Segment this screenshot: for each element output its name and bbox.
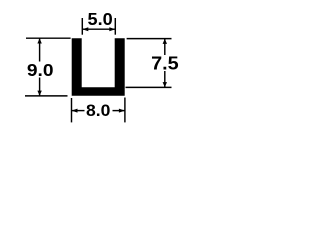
dimension 9.0 extension line top [26,37,71,39]
dimension 7.5 dimension line lower segment [164,71,166,87]
dimension 5.0 extension line left [81,18,83,35]
dimension 5.0 arrowhead right [109,27,115,31]
dimension 5.0 extension line right [114,18,116,35]
dimension 8.0 dimension line right segment [113,110,125,112]
svg-text:8.0: 8.0 [86,101,110,120]
dimension 7.5 extension line bottom [126,86,172,88]
dimension 7.5 dimension line upper segment [164,39,166,55]
dimension 9.0 arrowhead down [37,91,41,96]
dimension 5.0 dimension line [82,28,115,30]
dimension 8.0 arrowhead left [72,109,78,113]
dimension 9.0 extension line bottom [25,95,68,97]
dimension 7.5 arrowhead down [163,82,167,87]
dimension 5.0 arrowhead left [82,27,88,31]
svg-text:5.0: 5.0 [88,9,113,29]
dimension 7.5 extension line top [127,38,172,40]
dimension 9.0 arrowhead up [37,38,41,43]
svg-text:7.5: 7.5 [151,52,179,73]
dimension 9.0 dimension line upper segment [39,38,41,61]
dimension 8.0 arrowhead right [119,109,125,113]
U-channel profile cross-section [72,38,125,95]
dimension 9.0 dimension line lower segment [39,78,41,96]
svg-text:9.0: 9.0 [27,60,54,80]
dimension 8.0 extension line left [71,98,73,122]
dimension 8.0 extension line right [124,98,126,123]
dimension 7.5 arrowhead up [163,39,167,44]
dimension 8.0 dimension line left segment [72,110,85,112]
